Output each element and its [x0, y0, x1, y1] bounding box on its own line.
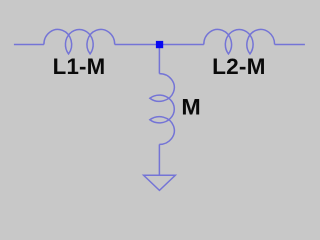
svg-text:L1-M: L1-M — [53, 54, 106, 79]
svg-text:M: M — [181, 94, 201, 119]
svg-text:L2-M: L2-M — [212, 54, 265, 79]
